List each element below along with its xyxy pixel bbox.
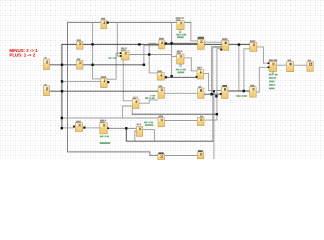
wire dark M3out to RB1 y77.3 (167, 76, 197, 78)
node j11 (148, 53, 150, 55)
wire SB3 to MB8 y42.2 (204, 41, 222, 43)
node j12 (210, 93, 212, 95)
block B9 RUN (177, 54, 184, 64)
wire dark main y44.4 (62, 43, 250, 45)
block B4 SB3 (198, 39, 205, 49)
block B28 (158, 154, 165, 160)
block B15 DR (287, 62, 294, 72)
block B25 (136, 126, 142, 136)
wire TRIG output y54.5 (129, 54, 172, 56)
block B8 TRIG (121, 51, 129, 60)
wire B2 right loop x190.9 to SB3 top input (191, 22, 198, 41)
block B24 MB3 (100, 123, 108, 134)
wire H to DR (277, 64, 287, 66)
block B3 (77, 41, 83, 49)
wire RB2 lower-left drop x132.3 (131, 108, 133, 114)
wire BACK output up x116.1 to TRIG pin1 (107, 53, 120, 79)
block B6 MB1 (250, 42, 257, 51)
wire B28 to B29 bottom row (165, 155, 198, 157)
node j16 (61, 127, 63, 129)
wire bus A x211.6 (212, 47, 222, 95)
block B23 MB7 (75, 123, 82, 132)
block B12 M3 (157, 72, 164, 80)
wire B2 left loop x171.6 down to RUN input and dot (172, 22, 177, 76)
wire y118 to B26 (62, 117, 158, 119)
wire dark M2out to SB3 y43.3 (167, 42, 198, 44)
block B1 top left (101, 20, 107, 29)
wire dark vertical x61.9 (61, 44, 63, 128)
node j18 (243, 90, 245, 92)
node j1 (91, 43, 93, 45)
block B26 (158, 118, 164, 127)
wire DR to L (294, 64, 307, 66)
block B7 M2 (159, 40, 165, 49)
block B18 (158, 87, 165, 98)
wire B25 in2 from rail x134.8 (135, 131, 137, 141)
wire bus D x213.9 down (213, 91, 215, 158)
wire I1 net up x143.9 to block M2 input2 (144, 46, 158, 65)
block B22 BACK (101, 78, 107, 87)
wire RB2 input2 x122.6 (123, 106, 133, 118)
wire dark y114.2 (132, 113, 217, 115)
block B10 I1 (44, 59, 50, 70)
block B20 ACC (222, 87, 229, 99)
svg-text:PLUS: 1 -> 2: PLUS: 1 -> 2 (9, 53, 35, 58)
wire into MB7 y127.9 (62, 127, 73, 129)
wire bus B x212.8 (213, 48, 222, 142)
wire main top rail y22.4 with left drop x67.5 and bottom rail (68, 22, 191, 155)
wire dark I1 out y64.8 (50, 64, 144, 66)
wire B26 to B27 y120.5 (164, 120, 197, 122)
wire B18 to B19 y93.3 (165, 92, 198, 94)
node j2 (138, 43, 140, 45)
node j7 (61, 80, 63, 82)
node j9 (170, 42, 172, 44)
block B11 (77, 61, 83, 70)
block B17 I2 (44, 86, 50, 96)
node j10 (170, 75, 172, 77)
wire MB1 lower loop x243.9 (244, 49, 250, 91)
node j8 (61, 90, 63, 92)
node j15 (61, 117, 63, 119)
block B30 RB2 (132, 99, 139, 109)
wire TRIG out feed x149.2 to M2 in1 and M3 in1 (149, 43, 157, 73)
block B5 MB8 (222, 40, 229, 50)
block B13 RB1 (197, 69, 204, 79)
wire RB1 output down x208.6 to ACC input (204, 73, 222, 90)
wire dark B19 out to ACC pin y94.2 (204, 93, 220, 95)
wire MB1 out to H in1 (257, 47, 269, 63)
block B29 (197, 152, 203, 159)
wire drop x238.9 (238, 45, 240, 91)
node j14 (216, 113, 218, 115)
wire B25 out down x154.4 (143, 130, 155, 142)
wire A-T out up to H in2 (256, 67, 269, 92)
wire y81.4 to BACK in2 (62, 80, 101, 82)
node j4 (61, 64, 63, 66)
wire MB3 out to dot to B25 (107, 127, 136, 129)
node j19 (213, 90, 215, 92)
block B16 L (307, 62, 313, 72)
wire bus C x216.9 from MB8 pin to B27 out (204, 49, 222, 120)
block B21 A-T (250, 87, 257, 97)
wire dark ACC out to A-T y91 (228, 90, 250, 92)
wire RUN output down x191.3 to RB1 input (184, 58, 197, 71)
block B27 (197, 117, 204, 125)
svg-text:MINUS: 2 -> 1: MINUS: 2 -> 1 (9, 48, 38, 53)
block B2 (177, 21, 184, 30)
wire block1 left loop x92.6 down to BACK input (93, 22, 101, 79)
node j13 (215, 95, 217, 97)
wire block1 right loop x117.3 down to TRIG pin2 (117, 22, 120, 56)
block B19 (198, 88, 204, 98)
grid dots (0, 0, 324, 160)
green label left of TRIG (109, 57, 111, 59)
node j5 (91, 64, 93, 66)
wire dark lower rail y141.2 (126, 128, 213, 141)
node j6 (143, 64, 145, 66)
node j3 (238, 43, 240, 45)
node j17 (125, 127, 127, 129)
wire MB7 out to MB3 (86, 127, 100, 129)
wire dark I2 out y91.2 (50, 90, 159, 92)
block B14 H1 (269, 62, 276, 72)
wire RB2 out up to B18 bottom (139, 100, 158, 103)
wire RB2 input1 from TRIG bottom x123.2 (123, 60, 132, 101)
